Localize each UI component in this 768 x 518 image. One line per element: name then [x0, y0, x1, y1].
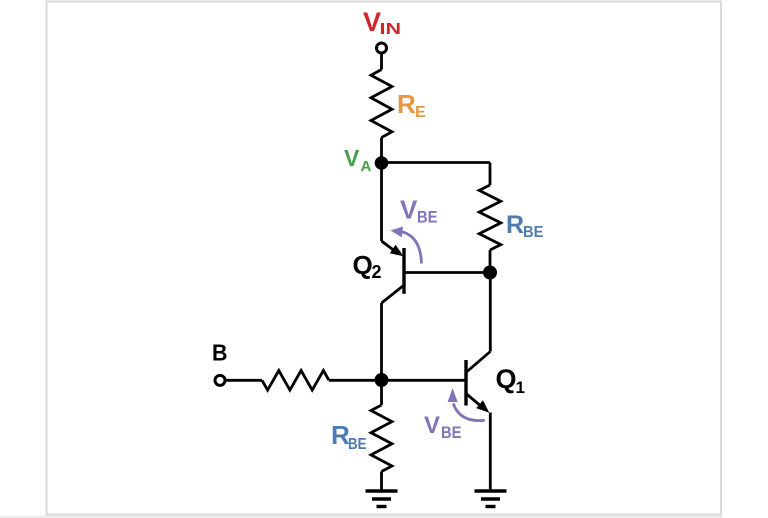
svg-text:R: R — [397, 89, 416, 119]
svg-text:E: E — [415, 104, 426, 121]
svg-text:B: B — [212, 340, 228, 366]
svg-text:V: V — [400, 195, 418, 225]
svg-text:BE: BE — [441, 423, 462, 442]
svg-text:R: R — [506, 211, 524, 239]
svg-text:IN: IN — [380, 21, 402, 38]
svg-text:Q: Q — [496, 364, 517, 394]
svg-text:Q: Q — [353, 250, 373, 280]
svg-text:BE: BE — [523, 224, 544, 241]
svg-text:V: V — [424, 412, 440, 439]
svg-text:1: 1 — [516, 378, 525, 397]
svg-text:BE: BE — [348, 436, 367, 453]
svg-text:BE: BE — [417, 208, 438, 227]
svg-text:V: V — [363, 7, 381, 37]
svg-text:V: V — [344, 145, 360, 171]
svg-text:A: A — [361, 158, 372, 175]
svg-text:2: 2 — [372, 262, 382, 282]
